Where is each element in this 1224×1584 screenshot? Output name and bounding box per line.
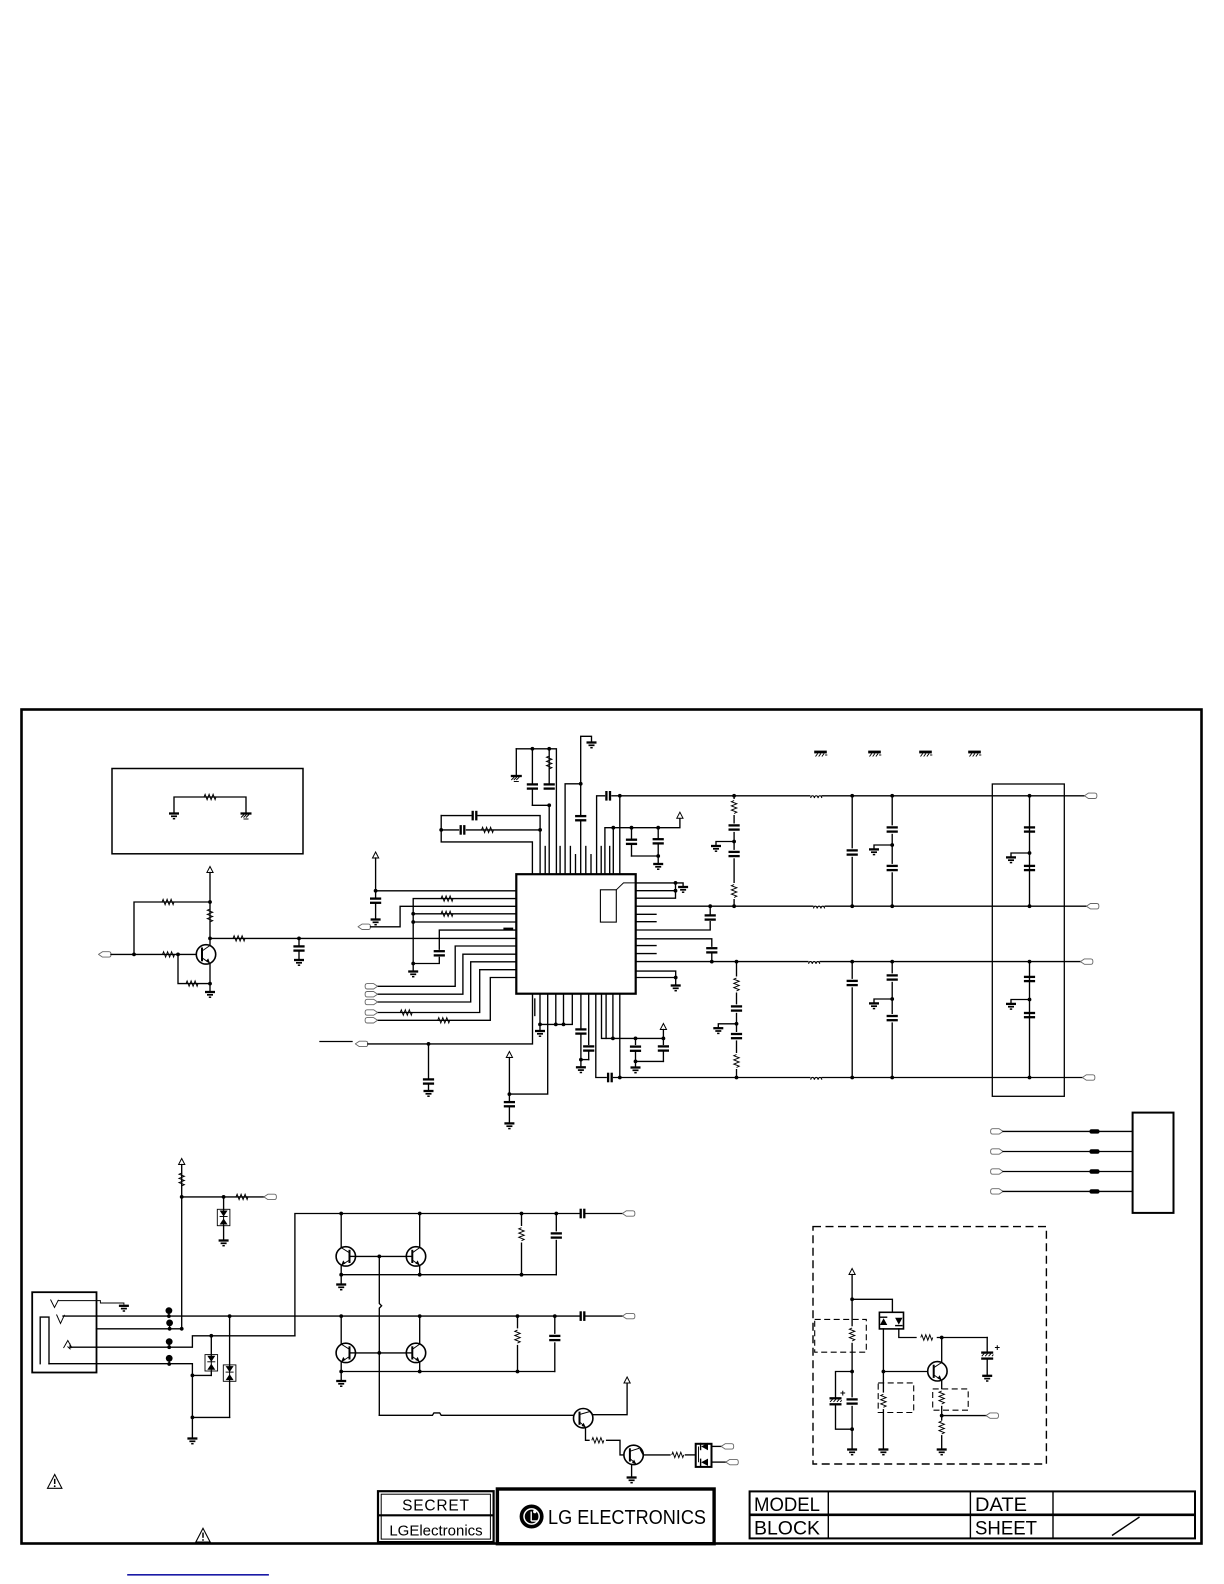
node [132, 953, 136, 957]
power arrow [660, 1024, 666, 1030]
sheet slash [1112, 1517, 1140, 1536]
svg-text:BLOCK: BLOCK [754, 1519, 820, 1540]
resistor R107 [467, 829, 541, 831]
ground [718, 1024, 736, 1027]
wire OUT4 [596, 994, 606, 1078]
pin blob P3 [166, 1338, 173, 1345]
node [890, 997, 894, 1001]
diode [895, 1318, 902, 1325]
connector tag [991, 1189, 1004, 1194]
transistor Q2 [340, 1214, 342, 1249]
transistor Q8 [941, 1338, 943, 1363]
resistor R115 [732, 977, 740, 993]
bead FB8 [1090, 1189, 1100, 1193]
pin blob P4 [166, 1355, 173, 1362]
wire drive [379, 1413, 573, 1415]
page border frame [22, 710, 1202, 1544]
svg-text:LG ELECTRONICS: LG ELECTRONICS [548, 1507, 706, 1529]
node [520, 1212, 524, 1216]
capacitor C107 [597, 796, 605, 874]
resistor R114 [730, 883, 738, 899]
wire [58, 1301, 124, 1305]
capacitor C135 [581, 1209, 585, 1219]
jack contact 2 [57, 1315, 65, 1324]
transistor Q1 [196, 945, 215, 964]
wire row2 [97, 1328, 183, 1330]
wire [1003, 1171, 1133, 1173]
IC U1 inner block [600, 890, 616, 922]
ground [937, 1450, 947, 1455]
connector tag [365, 984, 378, 989]
capacitor C111 [434, 951, 445, 955]
diode [698, 1447, 700, 1463]
power arrow [624, 1377, 630, 1383]
wire [619, 796, 621, 874]
svg-text:+: + [840, 1388, 846, 1399]
wire [1003, 1151, 1133, 1153]
node [180, 1327, 184, 1331]
wire pinL1 [375, 858, 377, 891]
capacitor C130 [508, 1094, 510, 1102]
node [618, 794, 622, 798]
node [208, 900, 212, 904]
wire [174, 797, 246, 813]
chain CC lower x892 [890, 960, 894, 964]
wire emitter [340, 1362, 342, 1372]
capacitor C134 [662, 1030, 664, 1045]
node [553, 1314, 557, 1318]
chain CC lower x1029 [1028, 960, 1032, 964]
node [547, 803, 551, 807]
wire pinL5 [413, 921, 516, 923]
ground [847, 1450, 857, 1455]
chain RCR lower (wire3-wire4) [735, 960, 739, 964]
wire [631, 1464, 633, 1476]
connector tag [991, 1149, 1004, 1154]
capacitor C120 [850, 960, 854, 964]
ground [653, 864, 663, 869]
wire xtal top [516, 749, 556, 874]
wire pinR2 [636, 890, 676, 892]
IC U1 main body [516, 874, 635, 994]
wire pinL3 [371, 906, 517, 927]
node [516, 1314, 520, 1318]
capacitor C137 [581, 1311, 585, 1321]
wire OUT2 [636, 905, 1087, 907]
node [418, 1314, 422, 1318]
wire row1 bottom [341, 1274, 556, 1276]
node [890, 843, 894, 847]
connector tag [622, 1211, 635, 1216]
ground [587, 743, 597, 748]
capacitor C128 [1024, 1013, 1035, 1017]
ground [424, 1091, 434, 1096]
connector tag [1086, 904, 1099, 909]
capacitor C138 [554, 1316, 556, 1371]
svg-text:LGElectronics: LGElectronics [389, 1523, 482, 1540]
ground [504, 1123, 514, 1128]
resistor R118 [236, 1194, 248, 1199]
capacitor C114 [608, 1073, 612, 1083]
wire pinR3 [636, 883, 676, 898]
link underline [127, 1574, 269, 1576]
node [732, 840, 736, 844]
capacitor C110 [375, 891, 377, 898]
chain CC upper x892 [890, 794, 894, 798]
node [222, 1195, 226, 1199]
ferrite bead FB3 [809, 959, 820, 964]
resistor R104 [210, 937, 517, 939]
wire bases riser [379, 1256, 381, 1415]
transistor Q3 [419, 1214, 421, 1249]
wire OUT1 [620, 795, 1085, 797]
capacitor C132 [581, 1059, 589, 1061]
node [208, 982, 212, 986]
wire row2 bottom [341, 1371, 555, 1373]
wire pinL6 [413, 957, 439, 963]
node [1028, 998, 1032, 1002]
resistor R126 [938, 1389, 946, 1406]
ground [340, 1372, 342, 1381]
chassis ground [511, 776, 522, 782]
wire pinB5 [563, 994, 565, 1025]
capacitor C125 [1024, 827, 1035, 831]
electrolytic C140 [986, 1338, 988, 1352]
node [554, 1212, 558, 1216]
capacitor C101 [297, 937, 301, 941]
wire jack row2 [70, 1346, 97, 1348]
transistor Q4 [340, 1316, 342, 1344]
ground [371, 920, 381, 925]
connector tag [358, 924, 371, 929]
ground [576, 1067, 586, 1072]
dashed rect (option) [933, 1389, 969, 1410]
shield box [992, 784, 1064, 1096]
wire base [883, 1371, 927, 1373]
pin blob P1 [166, 1307, 173, 1314]
wire [712, 1445, 722, 1447]
node [411, 920, 415, 924]
wire avss rail [602, 994, 664, 1039]
capacitor C108 [631, 828, 633, 840]
resistor R112 [438, 1018, 450, 1023]
power arrow [849, 1269, 855, 1275]
node [191, 1374, 195, 1378]
jack CN1 box [32, 1292, 96, 1372]
wire [942, 1415, 986, 1417]
ground [675, 978, 677, 985]
wire [632, 855, 659, 857]
node [547, 747, 551, 751]
capacitor C116 [727, 850, 741, 858]
resistor R105 (base) [134, 953, 197, 955]
wire base tie [356, 1352, 380, 1354]
transistor Q5 [419, 1316, 421, 1344]
wire [612, 828, 614, 875]
capacitor C112 [636, 922, 711, 930]
ferrite bead FB2 [814, 904, 825, 909]
wire [619, 994, 621, 1078]
wire [1003, 1190, 1133, 1192]
node [940, 1414, 944, 1418]
ground [187, 1439, 197, 1444]
ground [119, 1306, 129, 1311]
diode [880, 1318, 887, 1325]
power arrow [179, 1159, 185, 1165]
connector tag IN [99, 952, 112, 957]
diode [701, 1459, 708, 1466]
LG logo [520, 1505, 544, 1529]
node [710, 960, 714, 964]
node [339, 1212, 343, 1216]
wire [607, 1440, 624, 1455]
electrolytic C141 [836, 1372, 853, 1398]
pin negation bar [503, 928, 513, 930]
SECRET box [378, 1491, 494, 1542]
capacitor C118 [729, 1032, 743, 1040]
wire lower row main [97, 1315, 581, 1317]
optocoupler PC1 box [696, 1444, 712, 1467]
wire base tie [356, 1255, 380, 1257]
dashed rect (option) [878, 1383, 914, 1413]
dashed option box [813, 1227, 1046, 1464]
ground [1011, 853, 1030, 856]
wire [712, 1461, 726, 1463]
svg-text:DATE: DATE [975, 1495, 1027, 1516]
IC right stubs [636, 914, 656, 953]
wire emitter [941, 1380, 943, 1448]
chassis ground [241, 814, 252, 820]
IC top pin stubs [545, 847, 610, 875]
wire left leg [882, 1329, 884, 1449]
node [850, 1427, 854, 1431]
zener D2 [210, 1336, 212, 1355]
wire right leg [899, 1329, 916, 1338]
power arrow [677, 812, 683, 818]
IC bottom pin1 mark [534, 999, 536, 1016]
wire [937, 1337, 987, 1339]
svg-text:SECRET: SECRET [402, 1498, 470, 1515]
wire [192, 1416, 229, 1418]
resistor R117 [179, 1173, 184, 1186]
LG ELECTRONICS box [497, 1489, 714, 1544]
warning triangle [196, 1528, 210, 1542]
connector tag [1082, 1075, 1095, 1080]
wire [192, 1374, 211, 1376]
resistor R110 [413, 913, 516, 915]
wire emitter [340, 1265, 342, 1274]
capacitor C115 [727, 824, 741, 832]
resistor R127 [938, 1421, 946, 1436]
resistor R121 [592, 1438, 604, 1443]
wire [565, 784, 581, 874]
capacitor C136 [555, 1214, 557, 1275]
connector tag [365, 1010, 378, 1015]
wire pinB1 [368, 994, 533, 1044]
capacitor C119 [850, 794, 854, 798]
node [940, 1336, 944, 1340]
wire [134, 902, 210, 954]
connector tag [365, 999, 378, 1004]
ground [169, 814, 179, 819]
resistor R106 [186, 981, 198, 986]
connector tag [991, 1129, 1004, 1134]
node [656, 826, 660, 830]
resistor R116 [732, 1053, 740, 1069]
node [611, 826, 615, 830]
ground [340, 1275, 342, 1284]
wire pinR12 [636, 971, 676, 977]
wire gnd pins [540, 994, 572, 1025]
capacitor C124 [885, 1014, 899, 1022]
wire emitter [419, 1362, 421, 1372]
wire OUT3 [636, 961, 1081, 963]
node [531, 747, 535, 751]
wire riser [181, 1165, 183, 1329]
wire pinR1 [636, 882, 676, 884]
chassis ground mark [968, 752, 981, 757]
capacitor C104 [531, 749, 533, 785]
capacitor C139 [845, 1397, 859, 1405]
resistor R119 [521, 1214, 523, 1275]
jack sleeve [40, 1317, 49, 1364]
ground [1011, 1000, 1030, 1003]
connector tag [726, 1459, 739, 1464]
connector tag [986, 1413, 999, 1418]
capacitor C113 [636, 939, 712, 946]
node [850, 1297, 854, 1301]
capacitor C127 [1024, 977, 1035, 981]
ferrite bead FB4 [811, 1075, 822, 1080]
capacitor C126 [1024, 866, 1035, 870]
capacitor C103 [441, 829, 458, 831]
ground [874, 999, 892, 1002]
wire pin1 diagonal [616, 883, 635, 890]
wire netC [441, 816, 532, 875]
node [418, 1212, 422, 1216]
ground [205, 992, 215, 997]
wire jack row1 [63, 1315, 97, 1317]
wire emitter [419, 1265, 421, 1274]
chassis ground mark [814, 752, 827, 757]
bead FB7 [1090, 1169, 1100, 1173]
zener D3 [229, 1316, 231, 1366]
connector tag [721, 1444, 734, 1449]
node [735, 1022, 739, 1026]
capacitor C109 [657, 828, 659, 840]
node [427, 1042, 431, 1046]
node [180, 1195, 184, 1199]
node [538, 828, 542, 832]
node [850, 1370, 854, 1374]
ground [874, 845, 892, 848]
resistor R122 [672, 1452, 684, 1457]
resistor R102 [162, 899, 174, 904]
wire emitter [586, 1428, 590, 1441]
wire to opto [640, 1450, 670, 1455]
node [411, 912, 415, 916]
resistor R103 [207, 909, 212, 922]
svg-text:MODEL: MODEL [754, 1495, 820, 1516]
jack contact 1 [51, 1300, 59, 1308]
connector tag [264, 1194, 277, 1199]
node [708, 904, 712, 908]
wire base [379, 1255, 406, 1257]
wire [605, 994, 607, 1039]
wire collector [590, 1383, 627, 1415]
wire pinB3 [509, 994, 547, 1094]
wire main riser [851, 1275, 853, 1449]
capacitor C117 [729, 1004, 743, 1012]
connector tag [622, 1313, 635, 1318]
node [1028, 851, 1032, 855]
wire netA [441, 815, 471, 817]
wire [1003, 1130, 1133, 1132]
resistor R125 [921, 1335, 933, 1340]
wire [612, 994, 614, 1039]
wire [209, 873, 211, 946]
TVS diode D1 [223, 1197, 225, 1210]
wire [532, 805, 549, 874]
node [882, 1370, 886, 1374]
capacitor C123 [885, 973, 899, 981]
capacitor C106 [580, 784, 582, 816]
wire pinL12 [378, 978, 517, 1021]
chassis ground mark [919, 752, 932, 757]
wire pinL8 [378, 946, 517, 986]
power arrow VCC [207, 867, 213, 873]
wire pinL10 [378, 962, 517, 1002]
node [339, 1314, 343, 1318]
resistor R120 [517, 1316, 519, 1371]
wire [508, 1058, 510, 1095]
transistor Q7 [624, 1445, 643, 1464]
power arrow [373, 852, 379, 858]
ground [676, 883, 684, 886]
resistor R124 [879, 1393, 887, 1410]
wire [515, 749, 517, 775]
resistor R111 [400, 1010, 412, 1015]
bead FB5 [1090, 1129, 1100, 1133]
ground [294, 960, 304, 965]
power arrow [506, 1052, 512, 1058]
connector tag [365, 992, 378, 997]
capacitor C122 [885, 864, 899, 872]
dashed rect (option) [815, 1319, 867, 1352]
wire row4 [49, 1364, 192, 1438]
pin blob P2 [166, 1320, 173, 1327]
connector tag [365, 1018, 378, 1023]
resistor R101 [204, 794, 216, 799]
ground [219, 1241, 229, 1246]
connector tag [1084, 793, 1097, 798]
ground [878, 1450, 888, 1455]
connector CN2 box [1133, 1113, 1174, 1213]
node [209, 1334, 213, 1338]
resistor R109 [441, 896, 453, 901]
wire [111, 953, 134, 955]
capacitor C129 [428, 1044, 430, 1080]
svg-text:+: + [995, 1343, 1001, 1354]
chain CC upper x1029 [1028, 794, 1032, 798]
resistor R108 [548, 749, 550, 785]
resistor R113 [730, 799, 738, 815]
transistor Q6 [574, 1409, 593, 1428]
diode pack D4 box [879, 1312, 903, 1329]
ground [982, 1376, 992, 1381]
node [579, 1058, 583, 1062]
capacitor C105 [544, 784, 555, 788]
